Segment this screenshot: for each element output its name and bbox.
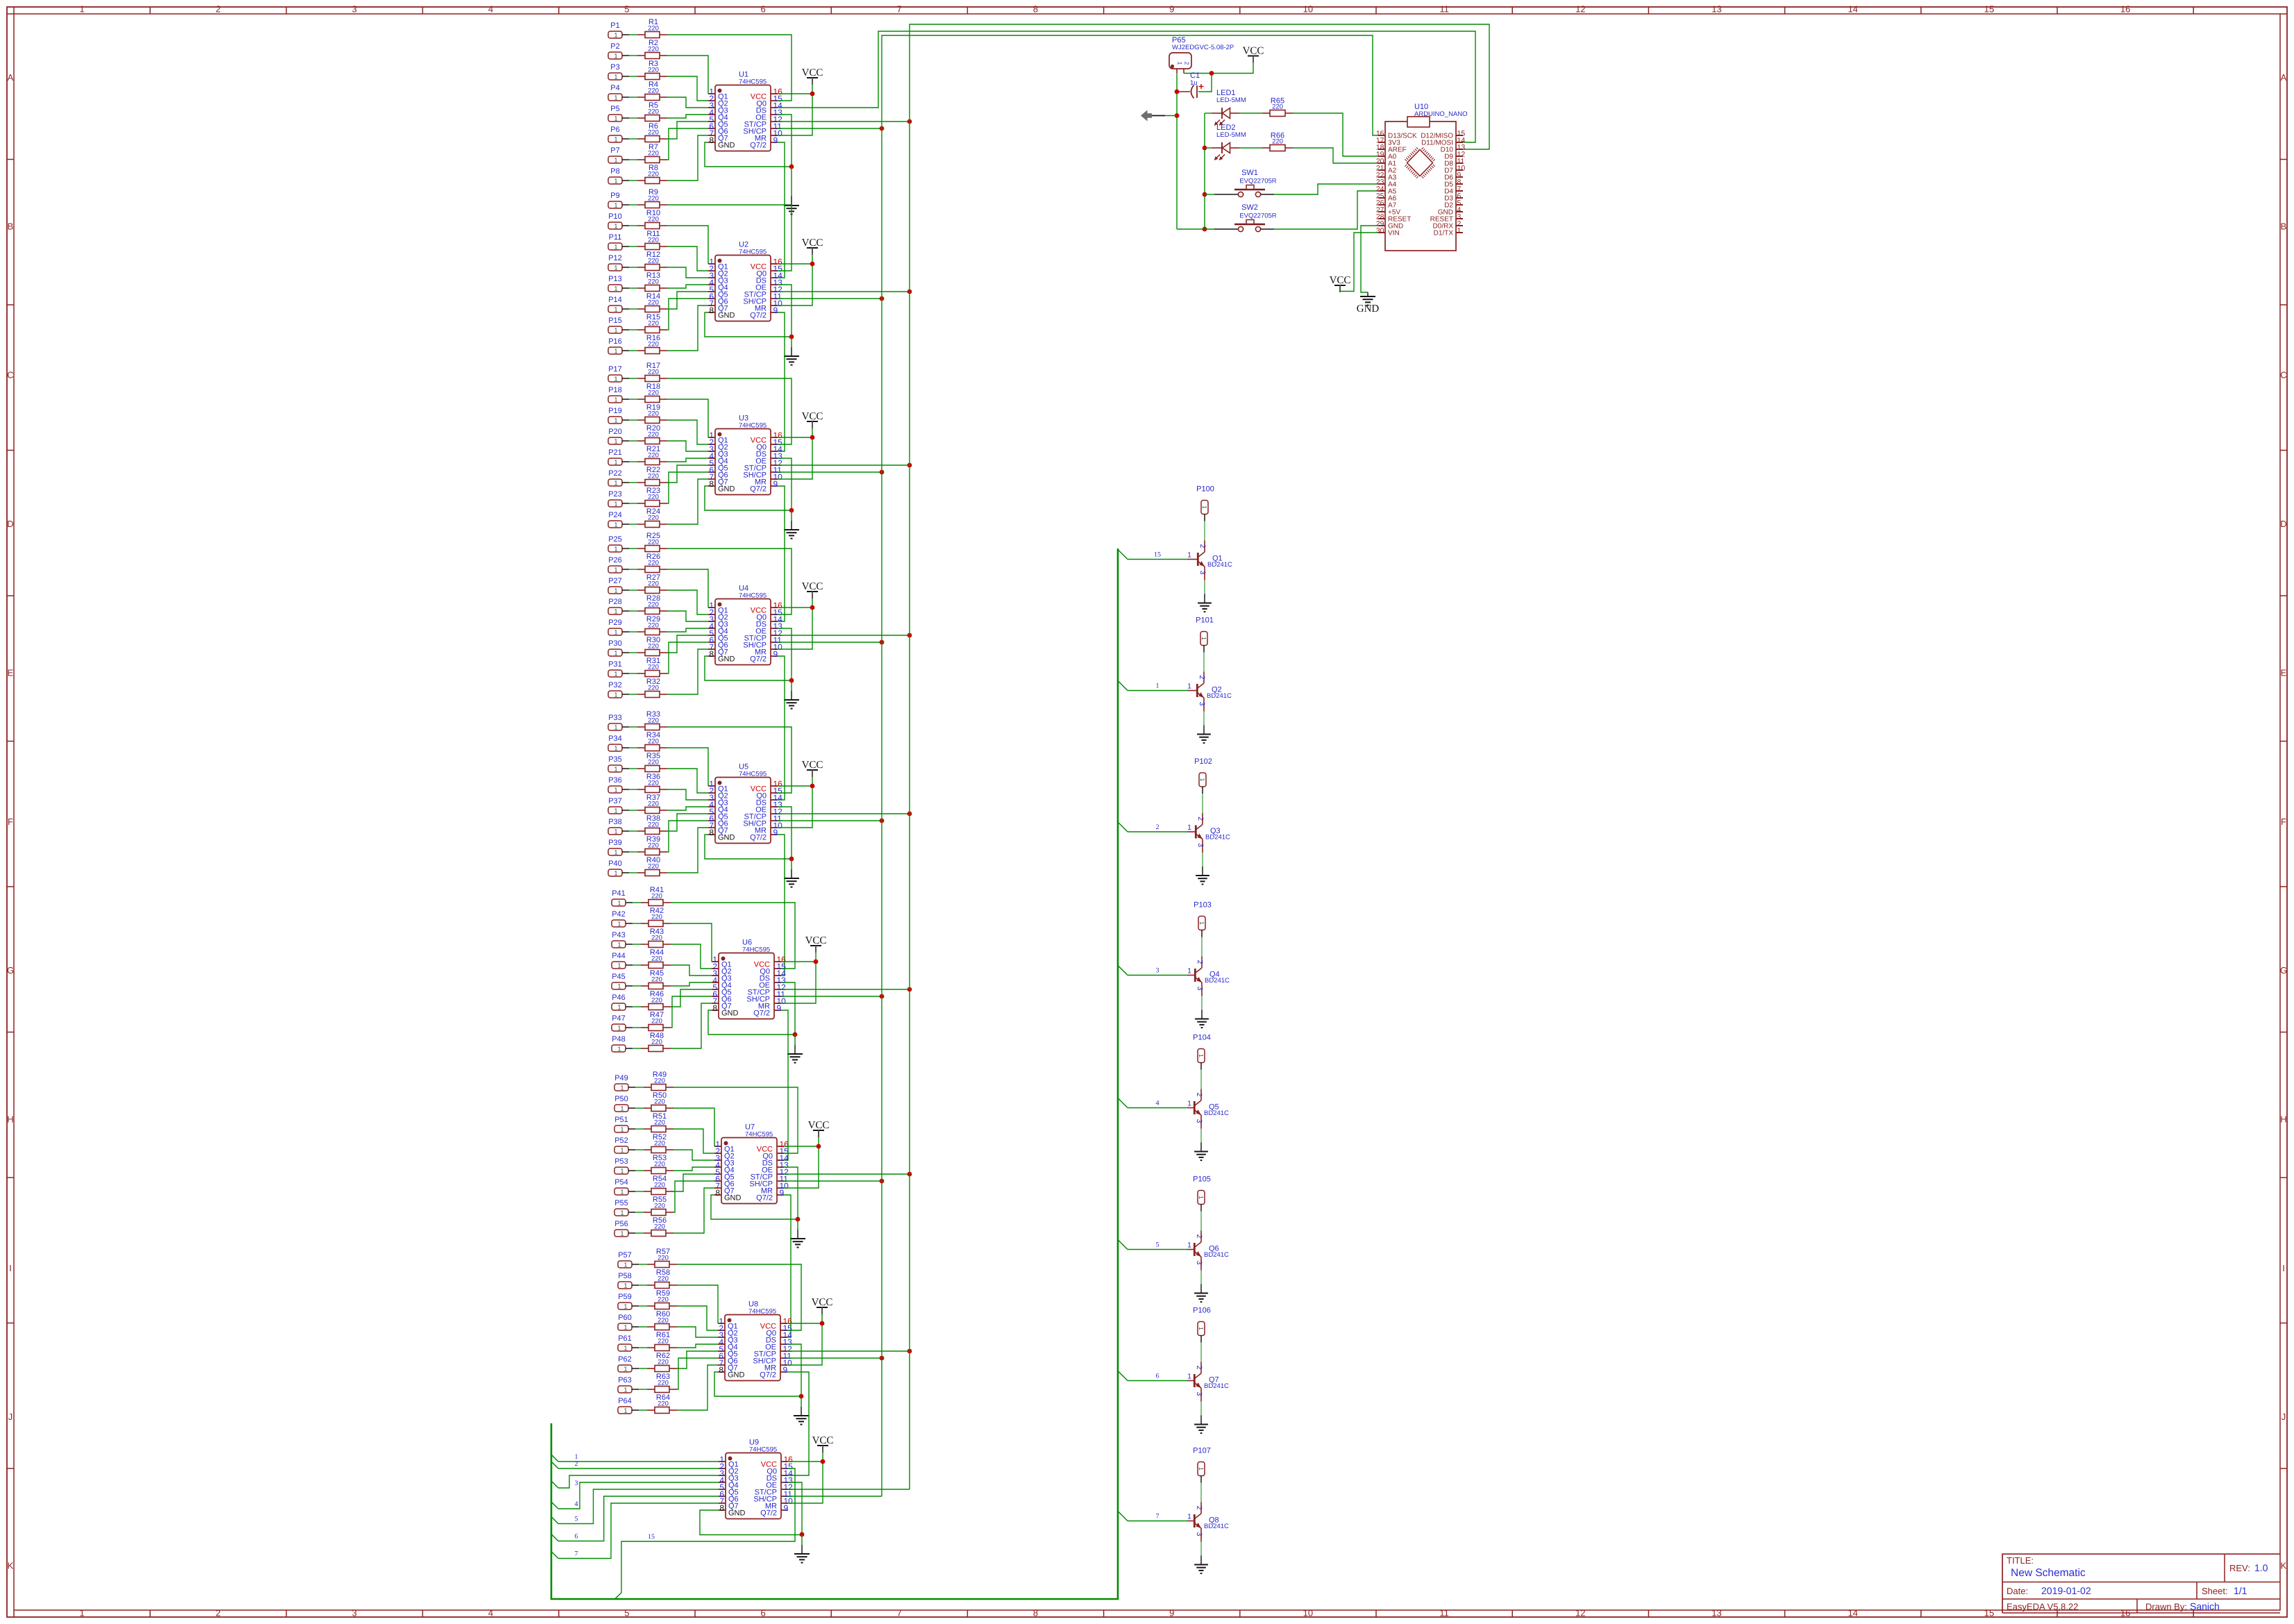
wire R30 to U4 xyxy=(667,635,708,653)
ground symbol at U2 xyxy=(784,337,799,365)
resistor R2 220 xyxy=(629,39,667,59)
svg-text:GND: GND xyxy=(724,1194,742,1203)
wire U2 ST/CP to latch bus xyxy=(778,290,912,294)
wire U1 OE and GND pin8 to ground xyxy=(705,115,794,169)
svg-text:220: 220 xyxy=(648,195,659,203)
74HC595 U5 xyxy=(708,763,782,844)
wire R16 to U2 xyxy=(667,305,708,351)
svg-text:P22: P22 xyxy=(608,469,622,478)
svg-text:74HC595: 74HC595 xyxy=(739,78,767,86)
svg-text:1: 1 xyxy=(617,921,621,928)
svg-text:Q7/2: Q7/2 xyxy=(760,1371,776,1380)
resistor R65 220 xyxy=(1262,97,1293,117)
svg-text:74HC595: 74HC595 xyxy=(739,592,767,600)
svg-text:G: G xyxy=(7,965,14,976)
svg-text:P5: P5 xyxy=(610,105,619,113)
svg-text:1: 1 xyxy=(614,480,617,487)
svg-text:C: C xyxy=(2280,370,2286,380)
wire bus entry net 5 to Q6 base xyxy=(1118,1240,1187,1250)
svg-text:220: 220 xyxy=(648,560,659,567)
svg-text:220: 220 xyxy=(648,780,659,787)
wire R47 to U6 xyxy=(671,996,712,1028)
wire U3 OE and GND pin8 to ground xyxy=(705,458,794,512)
svg-text:220: 220 xyxy=(658,1338,669,1346)
svg-text:P103: P103 xyxy=(1194,901,1212,910)
Arduino pin 20 A1 xyxy=(1376,158,1397,168)
svg-text:2: 2 xyxy=(1195,1234,1203,1239)
svg-text:13: 13 xyxy=(1711,1608,1721,1618)
connector P28 xyxy=(608,598,629,615)
svg-text:220: 220 xyxy=(658,1275,669,1283)
wire R64 to U8 xyxy=(677,1365,718,1410)
wire R19 to U3 xyxy=(667,420,708,444)
svg-text:220: 220 xyxy=(654,1140,665,1148)
svg-text:GND: GND xyxy=(728,1509,746,1518)
wire net 3 bus to U9 pin 3 xyxy=(551,1475,719,1488)
connector P34 xyxy=(608,735,629,752)
svg-text:3: 3 xyxy=(1156,967,1159,975)
connector P20 xyxy=(608,428,629,445)
VCC symbol at U7 xyxy=(808,1120,830,1146)
svg-text:1: 1 xyxy=(623,1303,627,1310)
wire R12 to U2 xyxy=(667,267,708,278)
resistor R15 220 xyxy=(629,313,667,333)
connector P43 xyxy=(612,931,633,948)
svg-text:BD241C: BD241C xyxy=(1205,977,1230,985)
Arduino pin 2 D0/RX xyxy=(1433,220,1463,231)
connector P41 xyxy=(612,889,633,907)
connector P47 xyxy=(612,1014,633,1032)
svg-text:220: 220 xyxy=(648,369,659,376)
svg-text:3: 3 xyxy=(1198,571,1207,575)
wire Arduino GND to ground xyxy=(1361,226,1378,292)
wire R42 to U6 xyxy=(671,923,712,962)
svg-text:15: 15 xyxy=(1154,551,1161,559)
wire R58 to U8 xyxy=(677,1285,718,1323)
wire net 5 bus to U9 pin 5 xyxy=(551,1489,719,1524)
svg-text:9: 9 xyxy=(1169,4,1174,15)
svg-text:220: 220 xyxy=(654,1119,665,1127)
svg-text:P50: P50 xyxy=(614,1095,628,1103)
74HC595 U1 xyxy=(708,71,782,151)
ground symbol at U4 xyxy=(784,680,799,709)
svg-text:J: J xyxy=(8,1412,13,1422)
svg-text:220: 220 xyxy=(648,821,659,829)
connector P51 xyxy=(614,1116,635,1133)
wire U2 pin16 VCC to MR xyxy=(778,262,814,305)
svg-text:220: 220 xyxy=(658,1400,669,1408)
svg-text:P13: P13 xyxy=(608,275,622,283)
resistor R37 220 xyxy=(629,794,667,814)
svg-text:Q7/2: Q7/2 xyxy=(750,142,767,150)
ground symbol at U6 xyxy=(787,1035,803,1063)
wire R60 to U8 xyxy=(677,1327,718,1337)
svg-text:P1: P1 xyxy=(610,22,619,30)
svg-text:1: 1 xyxy=(614,348,617,355)
svg-text:220: 220 xyxy=(658,1296,669,1304)
connector P50 xyxy=(614,1095,635,1112)
svg-text:TITLE:: TITLE: xyxy=(2007,1555,2034,1566)
svg-text:F: F xyxy=(8,817,13,827)
svg-text:220: 220 xyxy=(651,914,662,921)
svg-text:8: 8 xyxy=(709,305,714,315)
svg-text:P51: P51 xyxy=(614,1116,628,1124)
svg-text:1.0: 1.0 xyxy=(2254,1562,2268,1573)
svg-text:1: 1 xyxy=(617,1025,621,1032)
svg-text:6: 6 xyxy=(1156,1373,1159,1380)
wire U7 Q7/2 cascade to U8 DS xyxy=(784,1195,791,1337)
wire R55 to U7 xyxy=(673,1181,714,1212)
wire R35 to U5 xyxy=(667,769,708,793)
svg-text:14: 14 xyxy=(1848,1608,1857,1618)
connector P65 WJ2EDGVC-5.08-2P xyxy=(1169,36,1234,74)
svg-text:E: E xyxy=(8,667,14,678)
connector P4 xyxy=(608,84,629,101)
wire U7 ST/CP to latch bus xyxy=(784,1172,912,1177)
svg-text:E: E xyxy=(2281,667,2287,678)
resistor R18 220 xyxy=(629,383,667,403)
wire R15 to U2 xyxy=(667,299,708,330)
svg-text:P63: P63 xyxy=(618,1376,632,1384)
svg-text:EVQ22705R: EVQ22705R xyxy=(1239,178,1276,185)
svg-text:1: 1 xyxy=(1187,823,1191,832)
wire U8 OE and GND pin8 to ground xyxy=(714,1344,803,1398)
svg-text:A: A xyxy=(8,72,14,83)
wire R24 to U3 xyxy=(667,479,708,524)
wire LED2/R66 to Arduino A1 xyxy=(1293,148,1378,163)
svg-text:220: 220 xyxy=(651,976,662,984)
resistor R5 220 xyxy=(629,101,667,122)
svg-text:Sheet:: Sheet: xyxy=(2202,1586,2228,1596)
wire R10 to U2 xyxy=(667,226,708,264)
wire R41 to U6 xyxy=(671,903,795,969)
svg-text:1: 1 xyxy=(620,1189,623,1196)
resistor R43 220 xyxy=(633,928,671,948)
Arduino pin 5 D2 xyxy=(1444,199,1463,210)
svg-text:1: 1 xyxy=(620,1147,623,1154)
svg-text:1: 1 xyxy=(1187,1373,1191,1381)
svg-text:1: 1 xyxy=(614,157,617,164)
svg-text:Q7/2: Q7/2 xyxy=(756,1194,773,1203)
svg-text:P39: P39 xyxy=(608,839,622,847)
svg-text:2: 2 xyxy=(1198,544,1207,549)
Arduino pin 29 GND xyxy=(1376,220,1403,231)
wire U6 ST/CP to latch bus xyxy=(781,987,912,992)
svg-text:15: 15 xyxy=(1984,1608,1994,1618)
wire U6 pin16 VCC to MR xyxy=(781,960,818,1003)
wire R6 to U1 xyxy=(667,122,708,139)
svg-text:P58: P58 xyxy=(618,1272,632,1280)
svg-text:220: 220 xyxy=(648,685,659,692)
svg-text:220: 220 xyxy=(648,320,659,328)
connector P17 xyxy=(608,365,629,383)
resistor R25 220 xyxy=(629,532,667,552)
svg-text:12: 12 xyxy=(1575,1608,1585,1618)
resistor R7 220 xyxy=(629,143,667,163)
svg-text:74HC595: 74HC595 xyxy=(749,1446,777,1454)
ground symbol at Q1 xyxy=(1198,594,1212,612)
svg-text:1: 1 xyxy=(614,849,617,856)
wire U5 Q7/2 cascade to U6 DS xyxy=(778,835,785,976)
svg-text:WJ2EDGVC-5.08-2P: WJ2EDGVC-5.08-2P xyxy=(1172,44,1234,51)
resistor R14 220 xyxy=(629,292,667,312)
connector P56 xyxy=(614,1220,635,1237)
svg-text:1: 1 xyxy=(614,136,617,143)
svg-text:3: 3 xyxy=(1195,1532,1203,1537)
svg-text:I: I xyxy=(2282,1263,2285,1273)
ground symbol at U8 xyxy=(794,1396,809,1425)
resistor R48 220 xyxy=(633,1032,671,1052)
svg-text:2: 2 xyxy=(1195,1366,1203,1370)
wire bus entry net 1 to Q2 base xyxy=(1118,681,1187,691)
svg-text:P33: P33 xyxy=(608,714,622,722)
svg-text:220: 220 xyxy=(648,431,659,439)
svg-text:8: 8 xyxy=(709,828,714,837)
wire R27 to U4 xyxy=(667,590,708,614)
wire U9 pin16 VCC to MR xyxy=(788,1459,825,1503)
connector P10 xyxy=(608,212,629,230)
svg-text:P64: P64 xyxy=(618,1397,632,1405)
svg-text:1: 1 xyxy=(614,724,617,731)
svg-text:2: 2 xyxy=(216,1608,221,1618)
svg-text:BD241C: BD241C xyxy=(1205,834,1230,842)
svg-text:REV:: REV: xyxy=(2229,1563,2250,1573)
svg-text:1: 1 xyxy=(623,1345,627,1352)
svg-text:8: 8 xyxy=(709,649,714,659)
svg-text:GND: GND xyxy=(1357,303,1380,315)
svg-text:2: 2 xyxy=(216,4,221,15)
svg-text:P24: P24 xyxy=(608,511,622,519)
wire R52 to U7 xyxy=(673,1150,714,1160)
svg-text:1: 1 xyxy=(1198,1196,1205,1199)
svg-text:P40: P40 xyxy=(608,860,622,868)
bus to row drivers xyxy=(551,549,1118,1599)
svg-text:P9: P9 xyxy=(610,192,619,200)
Arduino pin 14 D11/MOSI xyxy=(1421,137,1465,147)
wire R17 to U3 xyxy=(667,378,792,444)
connector P107 xyxy=(1193,1447,1211,1483)
Arduino pin 9 D6 xyxy=(1444,171,1463,182)
svg-text:1: 1 xyxy=(614,828,617,835)
Arduino pin 17 3V3 xyxy=(1376,137,1400,147)
transistor Q5 BD241C xyxy=(1187,1070,1229,1143)
svg-text:P46: P46 xyxy=(612,994,626,1002)
svg-text:8: 8 xyxy=(1033,4,1038,15)
resistor R6 220 xyxy=(629,122,667,142)
svg-text:GND: GND xyxy=(718,485,735,494)
wire R14 to U2 xyxy=(667,292,708,309)
VCC symbol at U8 xyxy=(812,1297,833,1323)
connector P14 xyxy=(608,296,629,313)
wire U2 Q7/2 cascade to U3 DS xyxy=(778,312,785,451)
connector P35 xyxy=(608,755,629,773)
svg-text:VCC: VCC xyxy=(1243,46,1264,57)
connector P38 xyxy=(608,818,629,835)
svg-text:1: 1 xyxy=(1187,1241,1191,1250)
svg-text:2: 2 xyxy=(1156,823,1159,831)
wire R57 to U8 xyxy=(677,1264,801,1330)
svg-text:P59: P59 xyxy=(618,1293,632,1301)
svg-text:1: 1 xyxy=(1187,967,1191,976)
svg-text:VCC: VCC xyxy=(802,411,823,422)
svg-text:1: 1 xyxy=(1201,505,1208,509)
svg-text:P31: P31 xyxy=(608,660,622,669)
svg-text:220: 220 xyxy=(648,452,659,460)
svg-text:4: 4 xyxy=(488,1608,493,1618)
svg-text:1: 1 xyxy=(614,94,617,101)
wire U4 SH/CP to clock bus xyxy=(778,640,884,645)
svg-text:1: 1 xyxy=(614,74,617,81)
wire R48 to U6 xyxy=(671,1003,712,1048)
ground symbol at U1 xyxy=(784,167,799,215)
svg-text:74HC595: 74HC595 xyxy=(739,422,767,430)
Arduino pin 10 D7 xyxy=(1444,165,1465,175)
svg-text:1: 1 xyxy=(614,306,617,313)
svg-text:2: 2 xyxy=(1196,817,1205,821)
wire U1 DS to Arduino D11/MOSI xyxy=(778,31,1475,142)
connector P53 xyxy=(614,1157,635,1175)
connector P24 xyxy=(608,511,629,528)
connector P27 xyxy=(608,577,629,594)
svg-text:220: 220 xyxy=(648,738,659,746)
connector P3 xyxy=(608,63,629,81)
svg-text:220: 220 xyxy=(648,216,659,224)
svg-text:BD241C: BD241C xyxy=(1204,1110,1229,1117)
resistor R56 220 xyxy=(635,1216,673,1237)
wire U1 pin16 VCC to MR xyxy=(778,92,814,135)
resistor R3 220 xyxy=(629,60,667,80)
wire U9 OE and GND pin8 to ground xyxy=(700,1482,804,1537)
wire R9 to U2 xyxy=(667,205,792,271)
svg-text:P43: P43 xyxy=(612,931,626,939)
svg-text:8: 8 xyxy=(709,135,714,145)
connector P37 xyxy=(608,797,629,814)
ground symbol at Q2 xyxy=(1197,726,1211,744)
wire net 2 bus to U9 pin 2 xyxy=(551,1462,719,1468)
connector P52 xyxy=(614,1137,635,1154)
74HC595 U2 xyxy=(708,241,782,321)
svg-text:P29: P29 xyxy=(608,619,622,627)
svg-text:3: 3 xyxy=(1196,987,1204,991)
resistor R1 220 xyxy=(629,18,667,38)
svg-text:220: 220 xyxy=(648,237,659,244)
svg-text:1: 1 xyxy=(614,870,617,877)
wire R38 to U5 xyxy=(667,814,708,831)
svg-text:P12: P12 xyxy=(608,254,622,262)
svg-text:74HC595: 74HC595 xyxy=(739,249,767,256)
connector P36 xyxy=(608,776,629,794)
Arduino pin 30 VIN xyxy=(1376,227,1400,237)
svg-text:P8: P8 xyxy=(610,167,619,176)
wire U6 SH/CP to clock bus xyxy=(781,994,884,999)
connector P15 xyxy=(608,317,629,334)
svg-text:Date:: Date: xyxy=(2007,1586,2028,1596)
ground symbol at Q8 xyxy=(1194,1556,1208,1574)
svg-text:11: 11 xyxy=(1439,1608,1449,1618)
svg-text:P41: P41 xyxy=(612,889,626,898)
connector P58 xyxy=(618,1272,639,1289)
svg-text:1: 1 xyxy=(614,438,617,445)
connector P31 xyxy=(608,660,629,678)
net SH/CP clock line to Arduino D13/SCK xyxy=(882,35,1378,1496)
svg-text:220: 220 xyxy=(648,108,659,116)
LED LED1 LED-5MM xyxy=(1205,89,1262,126)
svg-text:220: 220 xyxy=(651,955,662,963)
wire U8 Q7/2 cascade to U9 DS xyxy=(787,1372,809,1475)
resistor R13 220 xyxy=(629,271,667,292)
connector P18 xyxy=(608,386,629,403)
resistor R17 220 xyxy=(629,362,667,382)
svg-text:30: 30 xyxy=(1376,227,1384,235)
wire bus entry net 7 to Q8 base xyxy=(1118,1512,1187,1521)
resistor R28 220 xyxy=(629,594,667,614)
wire LED rail xyxy=(1203,113,1207,231)
connector P46 xyxy=(612,994,633,1011)
svg-text:P45: P45 xyxy=(612,973,626,981)
svg-text:1: 1 xyxy=(614,244,617,251)
wire U2 SH/CP to clock bus xyxy=(778,296,884,301)
wire U7 SH/CP to clock bus xyxy=(784,1179,884,1184)
svg-text:1: 1 xyxy=(1198,1054,1205,1057)
svg-text:220: 220 xyxy=(648,759,659,767)
svg-text:P3: P3 xyxy=(610,63,619,72)
wire U3 SH/CP to clock bus xyxy=(778,470,884,475)
wire R54 to U7 xyxy=(673,1174,714,1191)
svg-text:P25: P25 xyxy=(608,535,622,544)
svg-text:Q7/2: Q7/2 xyxy=(750,834,767,842)
resistor R32 220 xyxy=(629,678,667,698)
svg-text:K: K xyxy=(8,1561,14,1571)
wire bus entry net 3 to Q4 base xyxy=(1118,966,1187,976)
svg-text:P23: P23 xyxy=(608,490,622,499)
svg-text:220: 220 xyxy=(648,643,659,651)
connector P63 xyxy=(618,1376,639,1393)
svg-text:220: 220 xyxy=(651,893,662,901)
svg-text:1: 1 xyxy=(1198,921,1205,925)
svg-text:P55: P55 xyxy=(614,1199,628,1207)
svg-text:7: 7 xyxy=(1156,1513,1159,1521)
svg-text:Q7/2: Q7/2 xyxy=(753,1010,770,1018)
svg-text:P37: P37 xyxy=(608,797,622,805)
resistor R60 220 xyxy=(639,1310,677,1330)
svg-text:EVQ22705R: EVQ22705R xyxy=(1239,212,1276,220)
resistor R61 220 xyxy=(639,1331,677,1351)
connector P7 xyxy=(608,147,629,164)
wire R22 to U3 xyxy=(667,465,708,483)
svg-text:1: 1 xyxy=(614,417,617,424)
svg-text:220: 220 xyxy=(654,1161,665,1169)
net port arrow xyxy=(1141,110,1177,122)
connector P57 xyxy=(618,1251,639,1269)
connector P54 xyxy=(614,1178,635,1196)
wire R43 to U6 xyxy=(671,944,712,969)
svg-text:1: 1 xyxy=(1156,683,1159,690)
connector P102 xyxy=(1194,757,1212,794)
svg-text:J: J xyxy=(2282,1412,2286,1422)
wire R2 to U1 xyxy=(667,56,708,94)
svg-text:1: 1 xyxy=(614,376,617,383)
svg-text:220: 220 xyxy=(648,299,659,307)
svg-text:5: 5 xyxy=(1156,1241,1159,1249)
wire U1 Q7/2 cascade to U2 DS xyxy=(778,142,785,278)
VCC symbol at U4 xyxy=(802,581,823,608)
svg-text:220: 220 xyxy=(654,1098,665,1106)
wire U3 Q7/2 cascade to U4 DS xyxy=(778,486,785,621)
wire R31 to U4 xyxy=(667,642,708,673)
resistor R51 220 xyxy=(635,1112,673,1132)
ground symbol at Q7 xyxy=(1194,1416,1208,1434)
resistor R20 220 xyxy=(629,424,667,444)
